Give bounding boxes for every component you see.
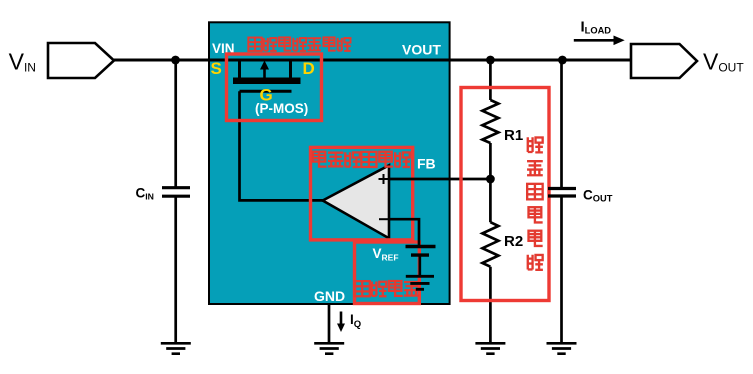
svg-text:S: S [211,59,222,78]
resistor R1 [482,100,498,143]
op-amp plus input mark [379,174,389,184]
wire: GND pin to ground [328,304,331,343]
connector V_OUT (output port symbol) [631,44,697,78]
node: feedback tap [486,175,495,184]
wire: R2 to ground [489,267,492,343]
svg-text:IQ: IQ [350,312,361,330]
op-amp minus input mark [379,218,389,220]
svg-text:D: D [303,59,315,78]
current arrow I_LOAD [574,39,616,42]
capacitor C_OUT [548,189,576,197]
op-amp U1 (error amplifier triangle) [323,165,389,238]
annotation box: divider sampling circuit [461,88,549,301]
transistor Q1 source stub [238,60,241,78]
wire: C_IN branch upper [174,60,177,188]
ground (below C_OUT) [547,343,577,353]
svg-text:(P-MOS): (P-MOS) [255,101,308,116]
annotation text: fen-ya-qu-yang-dian-lu (divider sampling, vertical) [527,137,543,270]
wire: gate to op-amp output [240,91,323,200]
svg-text:VOUT: VOUT [402,42,441,58]
resistor R2 [482,222,498,267]
wire: C_IN branch lower [174,196,177,343]
transistor Q1 channel bar [233,78,301,85]
reference source V_REF (battery) [406,245,436,248]
svg-text:COUT: COUT [583,188,613,204]
connector V_IN (input port symbol) [48,43,114,78]
annotation text: ji-zhun-dian-ya (reference voltage) [355,280,420,296]
wire: C_OUT branch upper [560,60,563,188]
transistor Q1 body arrow [263,66,266,78]
wire: minus input to reference [389,219,419,246]
annotation text: wu-cha-fang-da-dian-lu (error amplifier circuit) [313,151,410,167]
wire: C_OUT branch lower [560,196,563,343]
ground (reference, inside IC) [406,276,434,289]
svg-text:FB: FB [417,156,436,172]
svg-text:ILOAD: ILOAD [581,19,612,36]
wire: battery to internal ground [418,255,421,276]
annotation box: transistor adjust circuit [227,54,322,121]
node: VOUT-divider junction [486,56,495,65]
ground (below C_IN) [161,343,191,353]
svg-text:R2: R2 [504,233,523,250]
transistor Q1 gate line [240,90,292,93]
svg-text:R1: R1 [504,127,523,144]
ground (IC GND) [314,343,344,353]
wire: R1 to R2 [489,143,492,222]
annotation text: jing-ti-guan-tiao-zheng-dian-lu (transistor adjust circuit) [248,37,350,51]
svg-text:VOUT: VOUT [703,48,744,74]
annotation box: reference voltage [355,242,420,304]
node: VOUT-COUT junction [558,56,567,65]
wire: divider top [489,60,492,100]
wire: FB (+ input) to divider tap [389,178,490,181]
svg-text:VIN: VIN [9,48,36,74]
svg-text:CIN: CIN [136,186,154,202]
LDO IC body (teal block) [209,22,450,304]
transistor Q1 drain stub [289,60,292,78]
annotation box: error amplifier [311,147,413,240]
current arrow I_Q [340,312,343,326]
capacitor C_IN [162,188,190,197]
svg-text:GND: GND [314,288,345,304]
node: input junction [171,56,180,65]
wire: main top rail VIN to VOUT [114,59,631,62]
ground (divider) [475,343,505,353]
